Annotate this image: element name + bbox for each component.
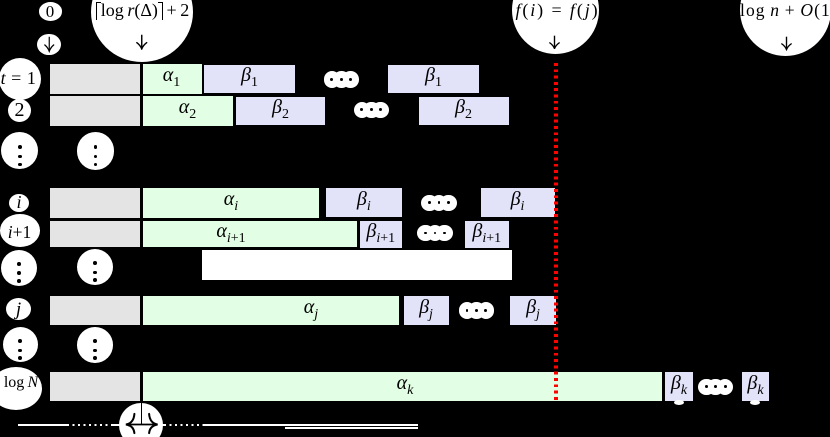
left label j circle <box>6 298 31 320</box>
row t=1 bar <box>48 62 204 95</box>
beta i box b <box>479 186 557 219</box>
beta i box a <box>324 186 405 219</box>
beta1 box a <box>202 63 297 95</box>
left label 2 <box>8 100 31 120</box>
left label i+1 <box>0 222 39 242</box>
left label i circle <box>9 194 29 212</box>
left label 2 circle <box>8 99 31 122</box>
left label i <box>9 193 29 212</box>
top label ceil log r(Delta) +2 <box>92 1 193 20</box>
beta2 box b <box>417 95 511 127</box>
row i+1 bar <box>48 219 359 250</box>
cdots blob row i <box>421 195 438 212</box>
vdots dots A1 <box>18 145 22 149</box>
vdots dots C1 <box>18 339 22 343</box>
row i bar <box>48 186 321 220</box>
left label j <box>6 299 31 320</box>
bottom white circle <box>119 403 163 437</box>
dark text marks over line right <box>166 424 204 426</box>
left label i+1 ellipse <box>0 214 40 247</box>
left label logN ellipse <box>0 367 42 410</box>
vdots circles C <box>3 327 38 362</box>
double arrow in bottom circle (svg) <box>119 410 165 437</box>
vdots dots A2 <box>94 145 98 149</box>
big ellipse log r(Delta) <box>91 0 193 62</box>
cdots blob row i+1 <box>417 225 434 242</box>
vdots circles A <box>1 132 38 169</box>
beta i+1 box b <box>463 219 512 250</box>
vertical line through bottom circle <box>141 403 143 426</box>
cdots blob row logN <box>698 379 715 396</box>
white nubs under beta k boxes <box>674 400 684 405</box>
ellipse f(i)=f(j) <box>512 0 599 54</box>
beta2 box a <box>234 95 327 127</box>
bottom white line main <box>18 424 418 426</box>
top label f(i)=f(j) <box>514 1 602 20</box>
beta labels <box>230 66 270 85</box>
left label log N <box>0 374 44 392</box>
beta1 box b <box>386 63 481 95</box>
row j bar <box>48 294 402 327</box>
bottom white line lower <box>285 427 418 429</box>
vdots dots B2 <box>93 261 97 265</box>
beta k box a <box>663 370 695 403</box>
vdots dots B1 <box>17 262 21 266</box>
row logN bar <box>48 370 664 403</box>
left label t=1 <box>0 68 37 88</box>
top ellipse 0 arrow <box>37 34 61 56</box>
cdots blob row j <box>459 302 476 319</box>
beta j box b <box>508 294 558 327</box>
beta k box b <box>740 370 772 403</box>
beta j box a <box>402 294 451 327</box>
cdots blob row 2 <box>354 102 371 119</box>
white strip below row i+1 <box>202 250 512 281</box>
vdots circles B <box>1 250 37 286</box>
vdots dots C2 <box>93 339 97 343</box>
left label t=1 ellipse <box>0 58 41 100</box>
alpha labels <box>152 66 192 85</box>
row 2 bar <box>48 95 235 128</box>
down arrows <box>44 36 55 53</box>
top label log n + O(1) <box>740 1 830 20</box>
top ellipse 0 <box>39 2 62 20</box>
ellipse log n + O(1) <box>740 0 830 56</box>
cdots blob row 1 <box>324 71 341 88</box>
red dotted vertical line <box>554 63 558 401</box>
top label 0 <box>38 2 62 21</box>
beta i+1 box a <box>358 219 405 250</box>
dark text marks over line left <box>69 424 112 426</box>
